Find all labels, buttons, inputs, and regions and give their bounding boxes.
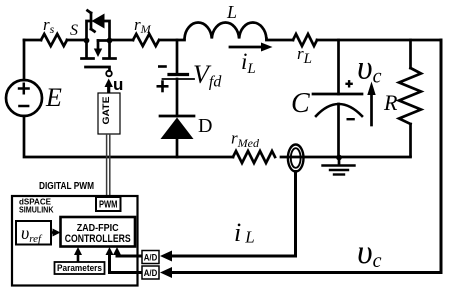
svg-text:iL: iL — [241, 49, 256, 77]
svg-text:Parameters: Parameters — [57, 263, 102, 274]
svg-text:SIMULINK: SIMULINK — [19, 205, 54, 215]
svg-text:L: L — [226, 2, 237, 22]
svg-text:υref: υref — [21, 223, 43, 245]
svg-text:u: u — [113, 75, 123, 94]
svg-text:CONTROLLERS: CONTROLLERS — [65, 233, 131, 245]
svg-text:D: D — [198, 115, 212, 137]
svg-text:DIGITAL PWM: DIGITAL PWM — [39, 181, 94, 192]
svg-text:iL: iL — [234, 218, 255, 247]
svg-text:E: E — [45, 83, 62, 112]
svg-text:R: R — [383, 90, 398, 115]
svg-text:PWM: PWM — [99, 200, 118, 211]
svg-text:C: C — [291, 88, 310, 119]
svg-text:rM: rM — [134, 15, 152, 36]
svg-text:υc: υc — [357, 234, 382, 272]
svg-text:rL: rL — [297, 44, 312, 67]
svg-text:A/D: A/D — [144, 268, 158, 279]
svg-text:GATE: GATE — [101, 97, 112, 125]
svg-text:rMed: rMed — [231, 129, 260, 151]
svg-text:A/D: A/D — [144, 253, 158, 264]
svg-text:Vfd: Vfd — [193, 60, 222, 91]
svg-text:S: S — [70, 22, 78, 39]
svg-text:υc: υc — [357, 50, 382, 88]
svg-text:rs: rs — [43, 15, 55, 36]
